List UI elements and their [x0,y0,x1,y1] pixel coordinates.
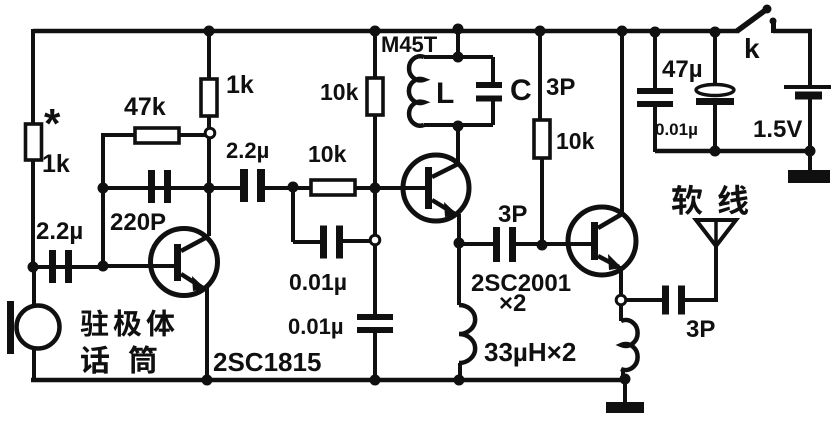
switch K [737,5,777,34]
svg-text:*: * [44,100,61,147]
wire C6 left leg [293,187,322,242]
wire switch to battery [773,29,812,34]
label 话筒 (microphone) [81,346,109,374]
terminal node D (C6 tap) [370,235,380,245]
wire to choke L2 [457,243,461,305]
capacitor C7 0.01µ (emitter bypass) [357,314,393,333]
wire battery negative lead [808,98,812,151]
svg-text:3P: 3P [498,201,527,228]
wire mic bottom lead [32,347,36,382]
terminal node F (Q3 emitter tap) [616,295,626,305]
wire Q2 emitter down [457,214,461,245]
svg-text:L: L [436,77,454,110]
resistor R4 10k (bias) [367,78,383,115]
svg-text:10k: 10k [556,128,595,154]
junction node rail-tank [453,24,464,35]
svg-text:1k: 1k [42,150,70,178]
wire rail to C10 [653,29,657,89]
wire R6 to node E [540,156,544,245]
label 软线 (flexible wire) [672,185,703,215]
wire 47k feedback branch [103,133,209,137]
junction node rail-Q3c [617,26,628,37]
wire bottom ground rail [31,378,627,383]
electret microphone MIC [7,301,60,354]
svg-text:33µH×2: 33µH×2 [484,337,576,367]
resistor R1 1k (mic load) [26,124,42,160]
wire C4 to Q2 base [265,186,428,190]
svg-text:3P: 3P [686,316,715,343]
junction node R6-C8 [537,240,548,251]
junction node C11 return [710,146,721,157]
svg-text:2.2µ: 2.2µ [36,218,83,245]
svg-text:220P: 220P [110,209,166,236]
junction node rail-R6 [535,26,546,37]
svg-text:10k: 10k [320,79,359,105]
wire Q3 collector branch [620,29,624,214]
resistor R2 47k (feedback) [135,128,179,143]
junction node rail-C10 [650,27,661,38]
capacitor C10 0.01µ (supply bypass) [637,88,673,107]
svg-text:0.01µ: 0.01µ [289,269,347,295]
transistor Q1 2SC1815 (mic amp) [151,229,218,296]
junction node gnd Q1e [202,375,213,386]
resistor R3 1k (Q1 collector) [201,79,217,116]
junction node rail-R4 [370,26,381,37]
wire rail to R6 [538,29,542,122]
svg-text:M45T: M45T [381,32,438,57]
junction node tank bottom [453,121,464,132]
svg-text:0.01µ: 0.01µ [655,120,698,139]
junction node rail-C11 [710,27,721,38]
junction node R4-Q2 base [370,183,381,194]
svg-text:3P: 3P [546,74,575,101]
wire 220P line [103,186,241,190]
antenna (flexible wire) [696,220,736,246]
svg-text:0.01µ: 0.01µ [288,314,344,339]
terminal node A (R2 tap) [205,128,215,138]
capacitor C3 2.2µ (interstage) [240,169,265,202]
capacitor C8 3P (Q2-Q3 coupling) [493,227,516,262]
ground (battery) [788,151,830,183]
wire oscillator bias branch [373,29,377,315]
capacitor C6 0.01µ [320,226,343,259]
junction node battery return [805,146,816,157]
label 驻极体 (electret) [81,309,108,336]
junction node B1 [98,183,109,194]
svg-text:k: k [744,33,760,64]
junction node gnd L2 [454,375,465,386]
svg-text:1k: 1k [226,71,254,99]
junction node rail-R3 [204,26,215,37]
wire top supply rail [33,29,739,34]
svg-text:2SC1815: 2SC1815 [213,347,321,377]
wire C8 to Q3 base [514,242,591,246]
junction node gnd C7 [370,375,381,386]
svg-text:47k: 47k [124,93,166,121]
junction node C3-R5 [288,182,299,193]
wire node B vertical [101,133,105,268]
wire R3/Q1 collector branch [207,29,211,236]
transistor Q2 2SC2001 (oscillator) [403,155,469,221]
wire mic to C1 [33,265,103,269]
capacitor C1 2.2µ (mic coupling) [49,250,72,283]
svg-text:C: C [510,74,532,107]
svg-text:10k: 10k [308,141,347,167]
junction node mic-C1 [28,262,39,273]
inductor L3 choke 33µH [621,320,638,370]
wire Q1 base lead [103,264,176,268]
wire tank to Q2 collector [456,125,460,166]
capacitor C11 47µ electrolytic [696,85,734,106]
wire C11 to return [713,104,717,152]
junction node Q1 base [98,261,109,272]
wire Q3 emitter down [619,266,623,297]
svg-text:47µ: 47µ [662,56,703,83]
junction node tank top [453,52,464,63]
wire rail to tank [456,31,460,58]
svg-text:2.2µ: 2.2µ [226,138,269,163]
wire Q2 emitter to C8 [459,242,495,246]
battery BT 1.5V [784,87,831,100]
wire battery positive lead [808,29,812,86]
capacitor C2 220P (feedback) [148,170,171,203]
wire C10 to return [653,107,657,152]
svg-text:1.5V: 1.5V [753,116,802,143]
wire rail to C11 [713,29,717,86]
resistor R6 10k (Q3 bias) [534,120,550,158]
wire C7 to ground rail [373,332,377,380]
wire node F to choke L3 [619,303,623,321]
junction node gnd L3 [620,374,631,385]
transistor Q3 2SC2001 (PA) [568,207,636,275]
ground (output) [606,379,644,413]
resistor R5 10k (Q2 base) [311,180,355,195]
wire C6 to node D [342,239,372,243]
wire choke L2 to rail [458,363,462,380]
wire Q1 emitter to ground rail [205,288,209,380]
wire C9 to antenna [684,246,716,302]
wire mic top lead [32,265,36,307]
wire choke L3 to rail [621,369,625,380]
inductor L2 choke 33µH [459,305,475,363]
wire node F to C9 [626,298,663,302]
wire tank loop [424,57,493,125]
capacitor C9 3P (antenna coupling) [662,286,685,315]
wire battery return [655,149,811,154]
capacitor C tank (top plate) [476,82,502,88]
junction node Q2 emitter [454,238,465,249]
inductor L (tank coil) [409,56,424,125]
junction node Q1 collector [204,183,215,194]
wire left branch (mic/R1) [31,29,35,269]
svg-text:×2: ×2 [499,290,526,317]
